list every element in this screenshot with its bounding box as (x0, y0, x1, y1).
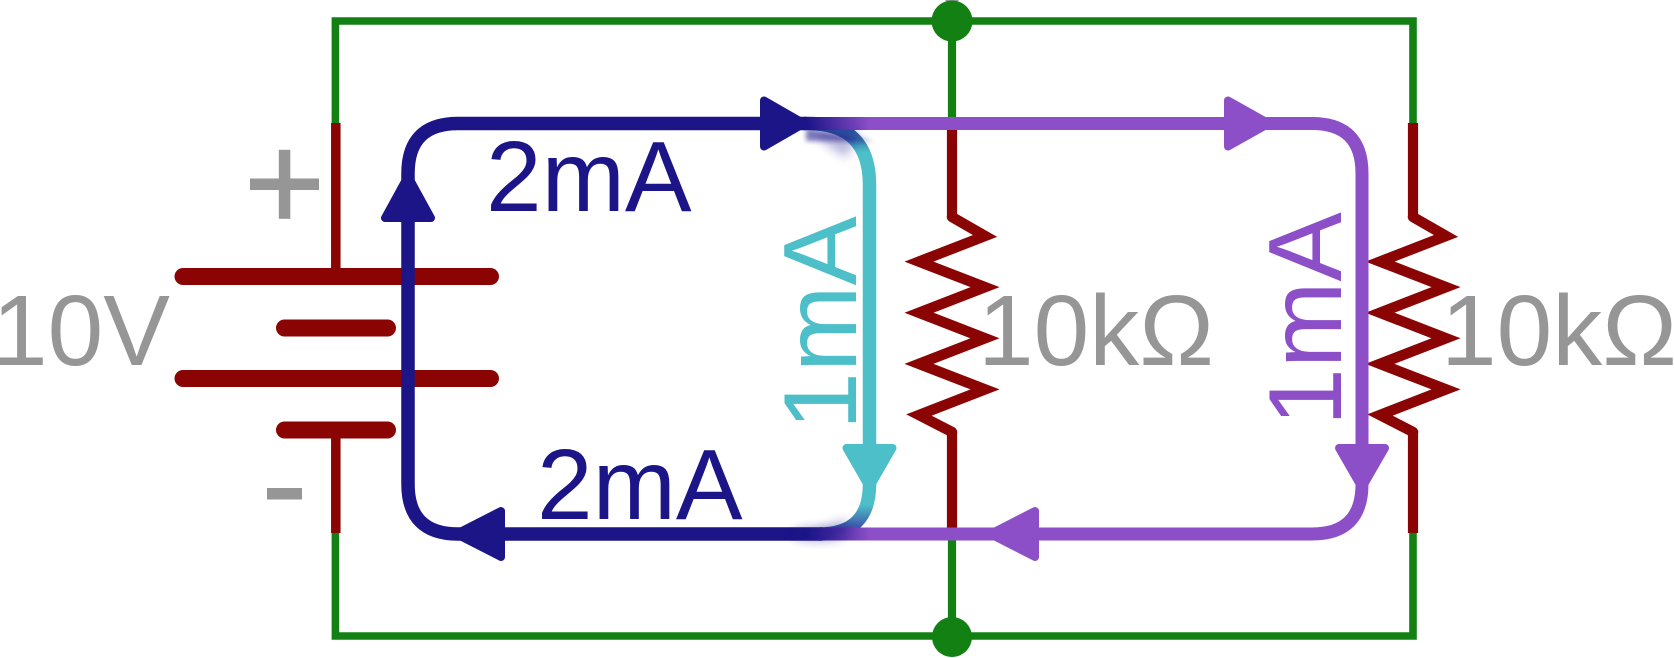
resistor R1 zigzag (919, 217, 985, 432)
current path 2mA navy main loop (408, 124, 822, 535)
resistor R1 top lead (947, 125, 957, 217)
node junction dot bottom (932, 617, 972, 657)
resistor R2 bottom lead (1408, 432, 1418, 533)
current path 1mA purple through R2 (806, 124, 1362, 535)
resistor R1 bottom lead (947, 432, 957, 533)
battery V1 plate short 2 (285, 422, 388, 439)
svg-text:2mA: 2mA (486, 121, 692, 233)
svg-text:10V: 10V (0, 275, 170, 387)
arrowhead 1mA purple left bottom (990, 511, 1035, 557)
resistor R2 top lead (1408, 123, 1418, 217)
wire green bottom rail (335, 531, 1413, 636)
svg-text:1mA: 1mA (763, 216, 879, 430)
resistor R2 zigzag (1380, 217, 1446, 432)
stray gray arc above top node (945, 0, 960, 3)
blend smudge bottom merge (792, 528, 844, 541)
battery V1 plate long 1 (183, 268, 491, 285)
svg-text:1mA: 1mA (1248, 212, 1364, 426)
label battery plus (250, 179, 319, 191)
svg-text:10kΩ: 10kΩ (978, 275, 1214, 387)
svg-text:10kΩ: 10kΩ (1441, 275, 1674, 387)
battery V1 top lead (331, 123, 341, 270)
blend smudge top split (806, 128, 874, 141)
battery V1 bottom lead (331, 436, 341, 533)
current path 1mA teal through R1 (804, 124, 870, 535)
arrowhead 1mA teal down (847, 448, 893, 488)
arrowhead 2mA right (764, 101, 804, 147)
arrowhead 2mA left bottom (456, 511, 501, 557)
svg-text:2mA: 2mA (537, 429, 743, 541)
wire green middle top segment (948, 21, 956, 127)
wire green middle bottom segment (948, 531, 956, 636)
label battery minus (267, 488, 302, 500)
wire green top rail (335, 21, 1413, 126)
arrowhead 1mA purple down (1339, 448, 1385, 488)
arrowhead 2mA up (385, 176, 431, 218)
node junction dot top (932, 1, 973, 42)
battery V1 plate short 1 (285, 320, 388, 337)
arrowhead 1mA purple right (1228, 101, 1269, 147)
battery V1 plate long 2 (183, 370, 491, 387)
